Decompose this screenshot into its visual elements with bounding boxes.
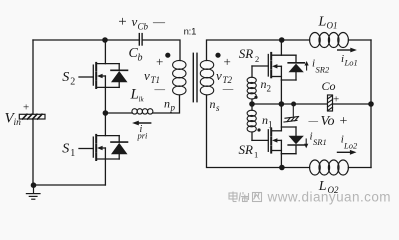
svg-text:b: b <box>138 53 143 64</box>
capacitor Cb <box>139 34 142 45</box>
inductor LO1 <box>310 33 349 48</box>
label i SR1 <box>310 131 327 148</box>
svg-text:Lo1: Lo1 <box>344 58 358 68</box>
label vT2 <box>216 68 233 85</box>
node n1 polarity dot <box>257 128 260 131</box>
svg-text:Vo: Vo <box>321 114 335 129</box>
svg-text:in: in <box>14 118 22 128</box>
arrow i_SR2 <box>305 61 309 70</box>
label Cb <box>129 46 143 64</box>
wire SR rail lower <box>280 154 282 168</box>
wire bottom left rail <box>33 184 105 186</box>
node bridge midpoint (top junction) <box>102 37 108 43</box>
transistor SR2 <box>252 53 296 80</box>
svg-text:S: S <box>62 70 69 85</box>
svg-text:+: + <box>156 54 163 69</box>
svg-text:Lo2: Lo2 <box>343 141 358 151</box>
node chassis branch <box>291 102 296 107</box>
svg-text:n:1: n:1 <box>184 27 197 38</box>
wire r2 to center tap <box>251 99 253 104</box>
svg-text:S: S <box>62 142 69 157</box>
label SR1 <box>239 142 259 159</box>
transformer primary winding np <box>173 60 186 95</box>
wire bridge rail lower (S1 source to bottom) <box>104 159 106 185</box>
svg-text:2: 2 <box>70 77 75 88</box>
wire bottom to LO2 <box>282 167 310 169</box>
label i SR2 <box>312 58 330 75</box>
svg-text:—: — <box>152 15 166 29</box>
svg-text:+: + <box>118 14 126 30</box>
svg-text:+: + <box>23 102 29 114</box>
label Lk <box>130 87 145 104</box>
wire output mid rail <box>252 103 328 105</box>
transistor SR1 <box>252 129 281 154</box>
svg-text:www.dianyuan.com: www.dianyuan.com <box>267 190 392 205</box>
label S1 <box>62 142 75 160</box>
transformer secondary winding ns <box>200 60 213 95</box>
svg-text:pri: pri <box>137 131 149 141</box>
winding r2 <box>247 77 256 99</box>
wire bridge rail upper (to S2 drain) <box>104 40 106 64</box>
wire n1 to SR1 gate <box>251 132 253 140</box>
svg-text:+: + <box>333 94 339 106</box>
svg-text:—: — <box>222 84 234 95</box>
diode SR1 body <box>281 127 304 154</box>
inductor LO2 <box>310 160 349 175</box>
svg-text:1: 1 <box>268 120 273 130</box>
svg-text:SR2: SR2 <box>316 65 330 75</box>
svg-text:2: 2 <box>255 54 259 64</box>
wire left rail Vin <box>32 40 34 185</box>
label i LO2 <box>341 134 358 151</box>
label r2 <box>261 77 272 94</box>
chassis ground <box>284 104 299 122</box>
svg-text:s: s <box>216 103 220 113</box>
svg-text:SR: SR <box>239 142 254 157</box>
transformer core <box>193 53 197 101</box>
svg-text:n: n <box>164 97 170 111</box>
node right rail mid <box>368 101 374 107</box>
wire SR rail middle <box>280 80 282 131</box>
svg-text:Co: Co <box>322 79 336 93</box>
diode S1 body <box>111 136 128 159</box>
wire SR2 gate to r2 <box>251 66 253 77</box>
svg-text:—: — <box>308 117 319 127</box>
node r2 polarity dot <box>254 96 257 99</box>
label np <box>164 97 176 113</box>
arrow i_pri <box>132 121 151 126</box>
svg-text:lk: lk <box>139 95 145 103</box>
wire top rail to LO1 <box>282 39 310 41</box>
ground <box>26 182 40 199</box>
label ns <box>210 97 221 113</box>
label SR2 <box>239 46 259 64</box>
arrow i_SR1 <box>304 139 308 148</box>
svg-text:O1: O1 <box>327 21 338 31</box>
svg-text:Cb: Cb <box>138 22 149 32</box>
svg-text:1: 1 <box>70 148 75 159</box>
label + vCb - <box>118 14 166 32</box>
wire LO2 to right rail <box>348 167 371 169</box>
transistor S1 <box>79 135 119 160</box>
node SR1 source junction <box>279 165 285 171</box>
node primary branch <box>103 110 109 116</box>
wire secondary top <box>207 40 282 61</box>
wire Lk to primary winding <box>153 95 180 113</box>
svg-text:L: L <box>318 15 327 30</box>
diode S2 body <box>111 64 128 88</box>
node secondary dot <box>215 53 220 58</box>
wire secondary bottom <box>207 95 282 168</box>
svg-text:1: 1 <box>254 150 258 160</box>
svg-text:SR: SR <box>239 46 254 61</box>
label Vin <box>5 111 22 129</box>
wire SR rail upper <box>280 40 282 55</box>
svg-text:p: p <box>170 103 176 113</box>
transistor S2 <box>79 63 119 88</box>
label n1 <box>262 113 273 130</box>
label i LO1 <box>341 53 358 68</box>
wire top rail left (Vin+ to Cb) <box>33 39 140 41</box>
label LO2 <box>318 179 339 195</box>
label LO1 <box>318 15 338 31</box>
watermark <box>229 190 391 205</box>
wire Cb to transformer primary top <box>143 40 180 61</box>
svg-text:v: v <box>216 68 222 83</box>
wire LO1 to right rail <box>348 39 371 41</box>
svg-text:+: + <box>224 54 231 69</box>
svg-text:v: v <box>144 68 150 83</box>
svg-text:T1: T1 <box>151 75 161 85</box>
winding n1 <box>247 110 256 132</box>
inductor Lk <box>132 109 153 114</box>
label S2 <box>62 70 75 88</box>
label i pri <box>137 124 149 141</box>
capacitor Co <box>328 95 333 111</box>
diode SR2 body <box>281 55 304 80</box>
svg-text:—: — <box>154 85 166 96</box>
wire right rail <box>370 40 372 168</box>
label -Vo+ <box>308 114 348 129</box>
arrow i_LO1 <box>338 48 357 53</box>
wire bridge rail middle (S2 source to S1 drain) <box>104 87 106 135</box>
wire primary loop left <box>105 112 132 114</box>
label vT1 <box>144 68 160 85</box>
svg-text:SR1: SR1 <box>313 137 327 147</box>
node center tap <box>249 101 255 107</box>
source Vin hatched bar <box>19 114 45 119</box>
node SR2 source junction <box>279 101 285 107</box>
node SR2 drain junction <box>279 37 285 43</box>
node primary dot <box>165 53 170 58</box>
arrow i_LO2 <box>338 150 357 155</box>
svg-text:+: + <box>340 114 348 129</box>
wire center tap to n1 <box>251 104 253 110</box>
svg-text:2: 2 <box>267 84 272 94</box>
svg-text:L: L <box>130 87 139 103</box>
wire Co to right rail <box>333 103 372 105</box>
svg-text:n: n <box>210 97 216 111</box>
